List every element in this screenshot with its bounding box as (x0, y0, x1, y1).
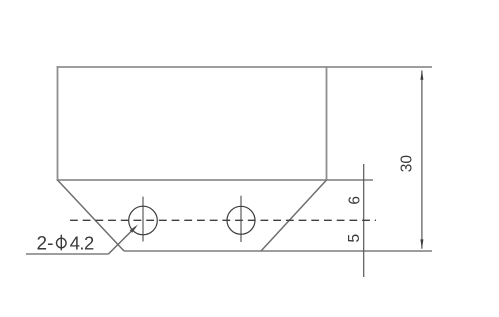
svg-text:6: 6 (346, 196, 363, 205)
svg-text:2-: 2- (37, 234, 54, 255)
svg-text:30: 30 (398, 155, 415, 173)
svg-text:5: 5 (346, 234, 363, 243)
svg-text:4.2: 4.2 (70, 233, 94, 254)
